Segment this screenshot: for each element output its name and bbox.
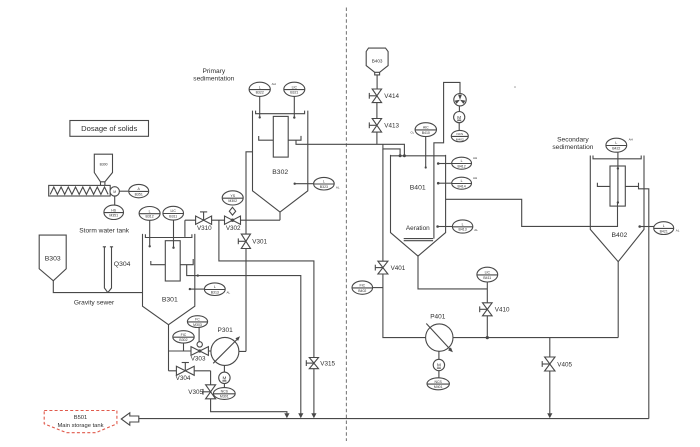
- svg-text:M301: M301: [220, 395, 229, 399]
- tank B401 aeration: [391, 155, 446, 256]
- wire motor to NCS M402: [458, 123, 460, 131]
- wire B403 to V414: [376, 75, 378, 89]
- instrument L B313: [204, 283, 230, 296]
- instrument NCS M301: [213, 388, 235, 400]
- valve V303 with actuator: [191, 328, 209, 363]
- svg-text:AL: AL: [474, 228, 478, 232]
- wire V413 to inlet header: [376, 132, 378, 144]
- node B401 inlet node 1: [399, 154, 402, 157]
- svg-text:M401: M401: [434, 385, 443, 389]
- svg-text:V305: V305: [188, 389, 203, 396]
- node B413 probe tip: [436, 225, 439, 228]
- valve V302 with actuator: [225, 207, 242, 232]
- svg-text:B321: B321: [290, 91, 298, 95]
- wire motor to NCS M301: [223, 384, 225, 388]
- instrument L B421: [654, 222, 680, 235]
- svg-text:AH: AH: [629, 138, 633, 142]
- svg-text:B410: B410: [422, 131, 430, 135]
- wire B301 underflow: [168, 325, 170, 371]
- node sludge line junction: [486, 336, 489, 339]
- instrument FC M303: [187, 316, 207, 328]
- wire V301 riser: [239, 152, 253, 352]
- wire FIC stem: [183, 343, 185, 351]
- svg-text:Q304: Q304: [114, 261, 131, 268]
- wire B323 probe: [295, 183, 314, 185]
- valve V413: [369, 119, 399, 133]
- instrument HS M351: [104, 205, 124, 219]
- blower A402: [454, 94, 466, 106]
- arrow V315 branch arrow: [311, 413, 316, 418]
- svg-text:B302: B302: [272, 169, 288, 176]
- svg-text:V310: V310: [197, 225, 212, 232]
- svg-text:LIC: LIC: [485, 271, 491, 275]
- wire B322 probe: [259, 96, 261, 117]
- svg-text:B301: B301: [162, 296, 178, 303]
- tank B303 storm water tank: [39, 235, 66, 281]
- wire V305 drop: [211, 371, 287, 414]
- svg-text:L: L: [149, 209, 151, 213]
- wire V410 to sludge line: [486, 316, 488, 338]
- wire P401 to motor: [438, 351, 440, 359]
- svg-text:B351: B351: [135, 192, 143, 196]
- svg-text:L: L: [615, 141, 617, 145]
- node B401 inlet node 2: [403, 154, 406, 157]
- svg-text:NCS: NCS: [457, 132, 464, 136]
- wire B422 probe: [617, 152, 619, 202]
- instrument FIC B302: [173, 331, 194, 343]
- wire FIC B402 link: [373, 287, 383, 289]
- screw conveyor W351: [49, 185, 120, 196]
- svg-text:L: L: [462, 223, 464, 227]
- wire conveyor to M351: [114, 196, 116, 205]
- svg-text:B501: B501: [74, 415, 88, 421]
- svg-text:B421: B421: [660, 229, 668, 233]
- svg-text:NCS: NCS: [221, 390, 229, 394]
- svg-text:B322: B322: [256, 91, 264, 95]
- wire motor to NCS M401: [438, 371, 440, 378]
- svg-text:Gravity sewer: Gravity sewer: [74, 300, 115, 307]
- wire B302 underflow riser: [279, 212, 281, 220]
- valve V304: [176, 363, 195, 383]
- node B322 probe tip: [259, 116, 261, 118]
- svg-text:L: L: [461, 159, 463, 163]
- svg-text:AIC: AIC: [423, 126, 429, 130]
- arrow B301 effluent arrow: [298, 413, 303, 418]
- wire LIC link to V410: [486, 282, 488, 303]
- flow arrow into B501: [121, 413, 139, 425]
- svg-text:AL: AL: [676, 229, 680, 233]
- svg-text:V401: V401: [391, 265, 406, 272]
- svg-text:B402: B402: [358, 289, 366, 293]
- pump P301: [211, 327, 240, 365]
- svg-text:B413: B413: [459, 228, 467, 232]
- pump P401: [426, 313, 453, 352]
- svg-text:M: M: [222, 376, 226, 381]
- wire B413 probe: [438, 226, 453, 228]
- instrument L B413: [452, 220, 478, 233]
- svg-text:M: M: [437, 363, 441, 368]
- motor blower motor M402: [454, 112, 465, 123]
- tank B402 secondary sedimentation: [590, 156, 644, 262]
- svg-text:AH: AH: [473, 176, 477, 180]
- svg-text:L: L: [214, 285, 216, 289]
- wire main line to storage: [139, 418, 649, 420]
- wire V414 to V413: [376, 103, 378, 119]
- node AIC probe tip: [425, 166, 427, 168]
- svg-text:sedimentation: sedimentation: [193, 76, 234, 83]
- svg-text:V301: V301: [252, 239, 267, 246]
- svg-text:YS: YS: [230, 194, 235, 198]
- valve V401: [375, 261, 406, 274]
- hopper B403: [366, 48, 388, 75]
- svg-text:FIC: FIC: [359, 284, 365, 288]
- svg-text:M: M: [113, 190, 116, 194]
- instrument LIC B321: [284, 82, 305, 96]
- instrument YS M302: [222, 191, 243, 205]
- instrument L B412: [452, 156, 477, 169]
- svg-text:V315: V315: [320, 360, 335, 367]
- hopper B300: [94, 154, 112, 185]
- instrument L B422: [606, 138, 633, 153]
- valve V414: [369, 89, 399, 103]
- svg-text:HS: HS: [111, 208, 117, 212]
- svg-text:B311: B311: [169, 214, 177, 218]
- valve V405: [542, 357, 572, 371]
- node B422 probe tip: [617, 201, 619, 203]
- svg-text:FIC: FIC: [181, 333, 187, 337]
- svg-text:V302: V302: [226, 225, 241, 232]
- svg-text:B300: B300: [100, 163, 108, 167]
- svg-text:B412: B412: [458, 164, 466, 168]
- svg-text:B313: B313: [211, 290, 219, 294]
- wire P401 discharge: [453, 337, 618, 339]
- wire inlet inner jog: [383, 144, 400, 156]
- svg-text:NCS: NCS: [435, 380, 443, 384]
- svg-text:M302: M302: [228, 199, 237, 203]
- wire sludge header: [185, 219, 280, 221]
- motor P301 motor: [219, 372, 230, 383]
- svg-text:M303: M303: [193, 323, 202, 327]
- svg-text:P301: P301: [218, 327, 234, 334]
- svg-text:B422: B422: [612, 146, 620, 150]
- svg-text:Main storage tank: Main storage tank: [57, 423, 103, 429]
- wire blower to motor: [458, 106, 460, 112]
- valve V315: [306, 358, 335, 369]
- svg-text:B302: B302: [179, 338, 187, 342]
- wire V304 run: [169, 370, 211, 372]
- wire B313 probe: [190, 288, 204, 290]
- svg-text:B401: B401: [410, 185, 426, 192]
- flume Q304: [103, 247, 131, 293]
- svg-text:B411: B411: [483, 276, 491, 280]
- tank B301: [143, 234, 195, 325]
- wire B401 overflow to B402: [446, 199, 618, 226]
- node B321 probe tip: [293, 116, 295, 118]
- instrument NCS M401: [427, 378, 449, 390]
- svg-text:B312: B312: [146, 215, 154, 219]
- wire V401 bypass: [383, 149, 426, 338]
- svg-text:B403: B403: [372, 58, 383, 63]
- svg-text:L: L: [461, 179, 463, 183]
- svg-text:M: M: [457, 115, 461, 120]
- node B311 probe tip: [172, 247, 174, 249]
- svg-text:sedimentation: sedimentation: [552, 144, 593, 151]
- svg-text:Storm water tank: Storm water tank: [79, 228, 130, 235]
- instrument LIC B311: [163, 206, 184, 220]
- instrument NCS M402: [451, 130, 468, 141]
- instrument L B312: [139, 207, 160, 221]
- wire AIC probe: [425, 136, 427, 167]
- svg-text:B303: B303: [45, 255, 61, 262]
- battery-limit divider (dashed): [345, 8, 347, 442]
- svg-text:AL: AL: [336, 185, 340, 189]
- valve V310: [196, 212, 213, 232]
- wire B302 effluent to B401: [296, 140, 404, 156]
- motor P401 motor: [433, 359, 444, 370]
- node effluent wall crossing: [197, 274, 199, 276]
- svg-text:AH: AH: [473, 156, 477, 160]
- wire B301 feedwell inlet drop: [184, 220, 186, 237]
- wire V303 run: [169, 350, 211, 352]
- tank B302 primary sedimentation: [253, 111, 308, 212]
- svg-text:B402: B402: [611, 232, 627, 239]
- node B414 probe tip: [437, 182, 440, 185]
- arrow V405 arrow: [547, 413, 552, 418]
- instrument L B323: [314, 177, 340, 190]
- instrument A B351: [129, 184, 149, 197]
- svg-text:AL: AL: [227, 291, 231, 295]
- svg-text:V405: V405: [557, 361, 572, 368]
- valve V410: [480, 303, 510, 316]
- wire B312 probe: [149, 220, 151, 246]
- tank B501 main storage (future): [44, 411, 117, 433]
- annotation box Dosage of solids: [70, 121, 149, 137]
- wire B311 probe: [173, 220, 175, 247]
- svg-text:B323: B323: [320, 185, 328, 189]
- instrument L B414: [452, 176, 477, 189]
- wire B402 effluent: [639, 186, 649, 418]
- svg-text:V410: V410: [495, 307, 510, 314]
- wire B303 outlet to gravity sewer: [53, 281, 142, 293]
- svg-text:V303: V303: [191, 356, 206, 363]
- instrument LIC B411: [477, 267, 498, 282]
- svg-text:FC: FC: [195, 318, 200, 322]
- node B323 probe tip: [294, 183, 296, 185]
- node B312 probe tip: [149, 245, 151, 247]
- svg-text:L: L: [323, 180, 325, 184]
- valve V305: [188, 385, 215, 399]
- svg-text:V414: V414: [384, 93, 399, 100]
- arrow to storage from V305: [284, 413, 289, 418]
- valve V301: [238, 234, 267, 248]
- svg-text:AH: AH: [272, 82, 276, 86]
- instrument FIC B402: [352, 281, 373, 294]
- wire branch header to V315: [219, 220, 314, 413]
- svg-text:L: L: [663, 224, 665, 228]
- svg-text:Dosage of solids: Dosage of solids: [81, 124, 137, 133]
- svg-text:Secondary: Secondary: [557, 137, 589, 144]
- wire B321 probe: [293, 96, 295, 117]
- wire B414 probe: [438, 182, 452, 184]
- svg-text:P401: P401: [430, 313, 446, 320]
- wire B301 effluent: [187, 265, 301, 414]
- wire B401 underflow: [418, 256, 487, 289]
- svg-text:LIC: LIC: [292, 85, 298, 89]
- svg-text:L: L: [259, 85, 261, 89]
- svg-text:LIC: LIC: [170, 209, 176, 213]
- svg-text:Aeration: Aeration: [406, 225, 430, 232]
- svg-text:Primary: Primary: [202, 68, 225, 75]
- node B422 probe node: [617, 167, 619, 169]
- wire conveyor to B351: [119, 190, 128, 192]
- svg-text:M402: M402: [456, 137, 464, 141]
- wire P301 to motor: [223, 365, 225, 372]
- node B421 probe tip: [638, 225, 641, 228]
- svg-text:V304: V304: [176, 375, 191, 382]
- instrument L B322: [249, 82, 276, 96]
- svg-text:V413: V413: [384, 123, 399, 130]
- wire B412 probe: [438, 163, 452, 165]
- svg-text:M351: M351: [109, 214, 118, 218]
- instrument AIC B410: [415, 123, 436, 137]
- wire B421 probe: [640, 226, 654, 228]
- stray mark: [514, 86, 516, 88]
- wire B402 underflow: [617, 262, 619, 338]
- svg-text:B414: B414: [458, 184, 466, 188]
- wire V405 drop: [549, 338, 551, 414]
- node B313 probe tip: [189, 288, 191, 290]
- wire air pipe: [434, 82, 460, 238]
- node B412 probe tip: [437, 162, 440, 165]
